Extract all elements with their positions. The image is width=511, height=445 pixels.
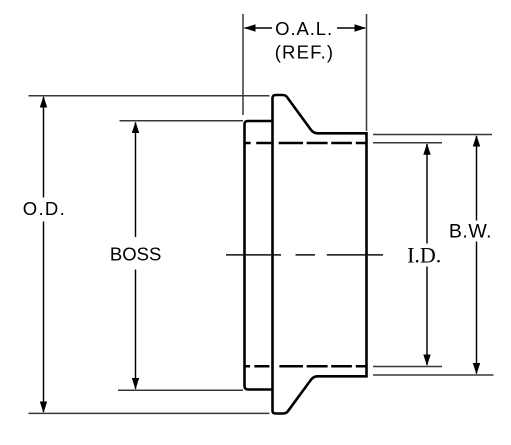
hidden bore line bottom (dashed) bbox=[244, 365, 366, 368]
O.A.L. arrow left bbox=[244, 24, 256, 31]
svg-text:O.D.: O.D. bbox=[23, 198, 66, 219]
fitting outline: hump and pipe body profile bbox=[273, 95, 367, 414]
B.W. extension line bottom bbox=[373, 374, 494, 376]
O.D. arrow up bbox=[40, 96, 47, 108]
svg-text:I.D.: I.D. bbox=[407, 243, 441, 268]
O.A.L. extension line right bbox=[366, 14, 368, 131]
O.A.L. extension line left bbox=[242, 14, 244, 115]
BOSS extension line bottom bbox=[118, 389, 243, 391]
BOSS dimension line bbox=[135, 123, 137, 390]
svg-text:O.A.L.: O.A.L. bbox=[275, 18, 333, 39]
B.W. extension line top bbox=[373, 134, 492, 136]
O.A.L. dimension line bbox=[245, 27, 366, 29]
I.D. extension line top bbox=[373, 142, 442, 144]
svg-text:(REF.): (REF.) bbox=[275, 41, 335, 62]
hidden bore line top (dashed) bbox=[244, 142, 366, 145]
O.D. extension line top bbox=[29, 95, 270, 97]
O.D. extension line bottom bbox=[29, 412, 270, 414]
B.W. dimension line bbox=[476, 136, 478, 374]
I.D. arrow up bbox=[423, 143, 430, 155]
centerline axis bbox=[226, 254, 383, 256]
BOSS arrow down bbox=[132, 378, 139, 390]
BOSS extension line top bbox=[120, 120, 244, 122]
I.D. dimension line bbox=[426, 144, 428, 365]
O.D. dimension line bbox=[43, 97, 45, 412]
O.D. arrow down bbox=[40, 402, 47, 414]
svg-text:B.W.: B.W. bbox=[449, 221, 492, 243]
B.W. arrow up bbox=[473, 135, 480, 147]
fitting outline: lap (flange) left section bbox=[245, 121, 273, 390]
I.D. arrow down bbox=[423, 355, 430, 367]
B.W. arrow down bbox=[473, 363, 480, 375]
svg-text:BOSS: BOSS bbox=[110, 243, 161, 264]
O.A.L. arrow right bbox=[355, 24, 367, 31]
BOSS arrow up bbox=[132, 122, 139, 134]
I.D. extension line bottom bbox=[373, 366, 442, 368]
